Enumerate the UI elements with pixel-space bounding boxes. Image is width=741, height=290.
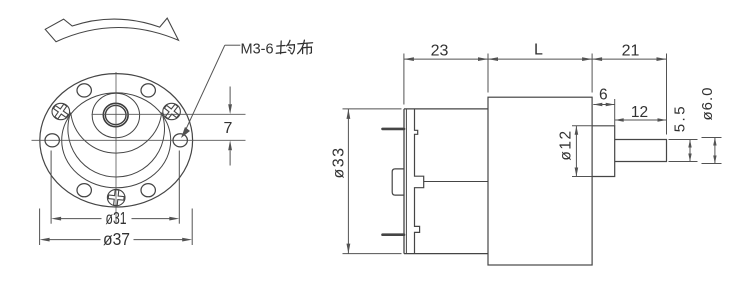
dimension 23 / L / 21 extension lines bbox=[403, 54, 405, 105]
dimension 7 bbox=[229, 87, 231, 105]
svg-text:ø33: ø33 bbox=[331, 146, 348, 178]
shaft bushing ring inner bbox=[105, 105, 126, 124]
end cap second line bbox=[405, 109, 407, 254]
dimension 5.5 bbox=[669, 139, 698, 141]
svg-text:23: 23 bbox=[431, 43, 449, 60]
dimension Ø37 bbox=[39, 209, 41, 246]
svg-text:ø31: ø31 bbox=[106, 208, 127, 228]
svg-text:5.5: 5.5 bbox=[672, 104, 689, 132]
brush cap bbox=[392, 169, 404, 195]
shaft bushing ring outer bbox=[103, 103, 128, 126]
flange outer circle Ø37 bbox=[40, 74, 193, 207]
leader M3-6 x6 evenly spaced bbox=[225, 44, 241, 46]
phillips screw upper-right bbox=[161, 101, 183, 123]
phillips screw bottom bbox=[107, 189, 125, 206]
vertical centerline bbox=[115, 72, 117, 223]
horizontal centerline bbox=[32, 139, 246, 141]
motor mid seam line bbox=[424, 181, 488, 183]
svg-text:M3-6: M3-6 bbox=[241, 41, 274, 57]
M3 mounting hole top-right bbox=[141, 84, 155, 97]
dimension 12 bbox=[615, 119, 667, 121]
M3 mounting hole bottom-left bbox=[77, 184, 91, 197]
text 均布 (evenly distributed) bbox=[276, 40, 312, 54]
svg-text:ø6.0: ø6.0 bbox=[699, 86, 716, 120]
svg-text:ø12: ø12 bbox=[558, 129, 575, 160]
motor end cap inner line with crimp tabs bbox=[415, 109, 424, 254]
rotation direction arrow bbox=[45, 18, 178, 42]
M3 mounting hole left bbox=[45, 134, 59, 147]
M3 mounting hole top-left bbox=[77, 84, 91, 97]
dimension line L bbox=[488, 58, 592, 60]
shaft boss circle bbox=[92, 93, 139, 137]
terminal pin lower bbox=[383, 233, 405, 236]
dimension Ø12 bbox=[572, 125, 592, 127]
output shaft bbox=[615, 140, 667, 162]
dimension Ø33 bbox=[343, 108, 402, 110]
dimension line 23 bbox=[404, 58, 488, 60]
hub horizontal line / dim 7 upper extension bbox=[92, 113, 246, 115]
output bushing boss bbox=[592, 126, 615, 177]
gearbox body bbox=[488, 97, 592, 265]
M3 mounting hole bottom-right bbox=[141, 184, 155, 197]
M3 mounting hole right bbox=[173, 134, 187, 147]
svg-text:L: L bbox=[534, 42, 543, 59]
dimension 6 bbox=[614, 99, 616, 126]
phillips screw upper-left bbox=[50, 101, 72, 123]
motor body bbox=[392, 109, 488, 254]
flange inner step circle bbox=[62, 93, 171, 188]
svg-text:21: 21 bbox=[622, 43, 640, 60]
dimension Ø6.0 bbox=[702, 137, 722, 139]
svg-text:12: 12 bbox=[631, 104, 648, 121]
dimension line 21 bbox=[592, 58, 666, 60]
terminal pin upper bbox=[383, 128, 405, 131]
svg-text:7: 7 bbox=[224, 120, 233, 137]
dimension Ø31 bbox=[50, 151, 52, 224]
svg-text:6: 6 bbox=[599, 87, 608, 104]
gearbox crescent bbox=[68, 113, 165, 178]
svg-text:ø37: ø37 bbox=[103, 229, 130, 249]
